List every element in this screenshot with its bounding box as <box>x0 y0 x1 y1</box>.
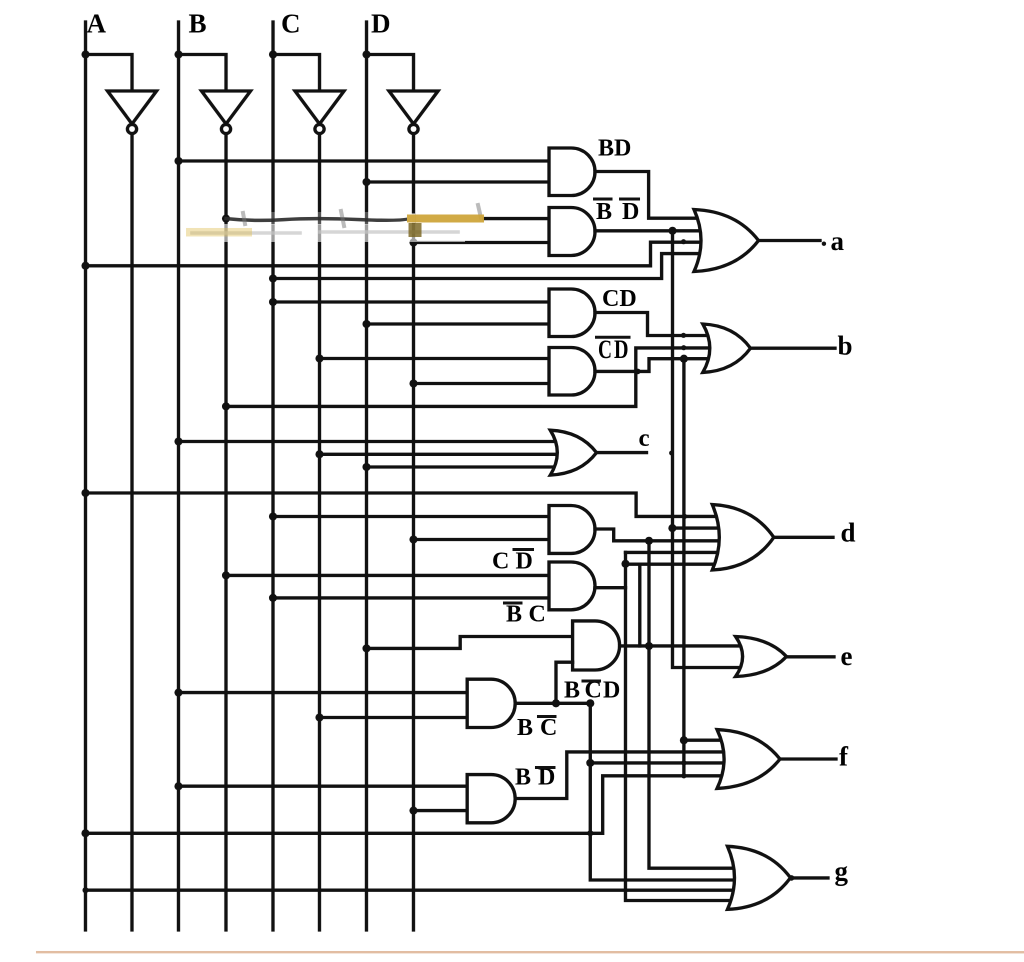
bus BCb vertical <box>590 703 746 880</box>
node CbDb bus tap <box>680 355 688 363</box>
wire B-bar to BbDb gate <box>484 217 549 220</box>
inverter for A <box>108 91 157 124</box>
OR gate d <box>712 505 774 570</box>
node BbDb bus tap <box>668 227 676 235</box>
junction Db-CDb <box>409 535 417 543</box>
wire C to CDb gate <box>273 515 549 518</box>
svg-text:B: B <box>596 199 612 225</box>
svg-text:D: D <box>371 8 391 38</box>
AND gate B-bar D-bar <box>549 208 595 256</box>
bus B-bar-D-bar vertical <box>672 231 752 668</box>
svg-text:A: A <box>87 8 107 38</box>
wire OR f output <box>780 757 836 760</box>
wire BD to OR a <box>595 172 715 219</box>
wire C-bar to OR c <box>320 453 569 456</box>
stray node c1 <box>669 451 674 456</box>
junction B top <box>174 50 182 58</box>
stray node b1 <box>681 333 686 338</box>
svg-text:B: B <box>189 8 207 38</box>
node CDb bus tap <box>645 537 653 545</box>
stray node f3 <box>681 773 686 778</box>
wire BbC to OR d in4 <box>625 551 732 554</box>
wire OR b output <box>751 347 836 350</box>
bus BbC vertical <box>625 552 746 900</box>
junction B-BCb <box>174 689 182 697</box>
junction D-BCbD <box>362 644 370 652</box>
svg-text:C: C <box>540 715 557 741</box>
AND gate BD <box>549 148 595 196</box>
stray node f2 <box>587 830 593 836</box>
wire A to OR a <box>86 242 716 266</box>
wire B to BCb gate <box>178 691 467 694</box>
wire B-bar to BbC gate <box>226 574 549 577</box>
svg-text:D: D <box>614 335 629 364</box>
wire C to OR a <box>273 254 715 279</box>
stray node b3 <box>681 345 686 350</box>
junction Db-BbDb <box>409 238 417 246</box>
wire BCb to OR f <box>590 761 736 764</box>
AND gate C D-bar <box>549 506 595 554</box>
AND gate B D-bar <box>467 775 515 823</box>
inverter for D <box>389 91 438 124</box>
line C-bar <box>318 134 321 930</box>
svg-text:c: c <box>639 425 650 452</box>
svg-text:CD: CD <box>602 286 637 312</box>
node BCb to BCbD riser <box>552 699 560 707</box>
junction C-CD <box>269 298 277 306</box>
wire OR c output <box>597 451 647 454</box>
junction Db-CbDb <box>409 379 417 387</box>
wire B to BDb gate <box>178 785 467 788</box>
junction Cb to c <box>315 450 323 458</box>
svg-text:D: D <box>515 549 532 575</box>
wire BbC output <box>595 586 626 589</box>
junction C-BbC <box>269 594 277 602</box>
wire A to OR d <box>85 493 732 516</box>
wire D to CD gate <box>367 322 550 325</box>
svg-text:d: d <box>840 518 855 548</box>
wire B-bar to OR b <box>226 348 722 407</box>
node a terminal <box>822 242 826 246</box>
wire CDb to OR d <box>595 529 732 541</box>
wire C-bar to CbDb gate <box>320 357 549 360</box>
wire OR d output <box>774 536 833 539</box>
wire BCbD riser <box>638 564 641 646</box>
page divider line <box>36 951 1024 953</box>
wire C to BbC gate <box>273 596 549 599</box>
wire CbDb to OR f <box>684 739 736 742</box>
junction A top <box>81 50 89 58</box>
svg-text:B: B <box>564 678 580 704</box>
svg-text:BD: BD <box>598 136 631 162</box>
wire D-bar to CbDb gate <box>414 382 550 385</box>
svg-text:B: B <box>515 765 531 791</box>
line B-bar <box>224 134 227 930</box>
wire OR e output <box>786 655 834 658</box>
bus CbDb to f vertical <box>682 359 685 776</box>
junction Bb-BbC <box>222 571 230 579</box>
wire BDb to OR f <box>515 752 736 799</box>
svg-text:f: f <box>839 742 849 772</box>
input line C <box>271 22 274 930</box>
input line B <box>177 22 180 930</box>
line D-bar <box>412 134 415 930</box>
node f in1 <box>680 736 688 744</box>
wire D-bar to CDb gate <box>413 538 549 541</box>
AND gate B C-bar <box>467 679 515 727</box>
wire OR d in5 <box>625 563 732 566</box>
svg-text:B: B <box>506 601 522 627</box>
stray node a3 <box>681 239 686 244</box>
wire BbDb to OR d <box>672 526 732 529</box>
junction Cb-BCb <box>315 713 323 721</box>
wire C-bar to BCb gate <box>319 716 467 719</box>
wire D-bar to BbDb gate <box>414 241 550 244</box>
svg-text:C: C <box>281 8 301 38</box>
svg-text:D: D <box>603 678 620 704</box>
wire BCbD nose to OR e <box>620 644 752 647</box>
junction D-BD <box>362 178 370 186</box>
node e in1 <box>645 642 653 650</box>
wire CbDb to OR b <box>595 359 722 372</box>
OR gate e <box>736 637 787 677</box>
svg-text:b: b <box>838 331 853 361</box>
junction B-BD <box>174 157 182 165</box>
wire BbDb to OR a <box>595 229 715 232</box>
line A-bar <box>130 134 133 930</box>
wire D to BCbD gate <box>366 636 572 648</box>
smudge overlay <box>230 212 410 225</box>
junction Db-BDb <box>409 807 417 815</box>
wire A to OR f <box>85 776 736 834</box>
svg-text:D: D <box>622 199 639 225</box>
AND gate CD <box>549 289 595 337</box>
smudge gray remnant <box>192 232 458 233</box>
junction A to a <box>81 262 89 270</box>
wire C to inverter <box>273 54 320 91</box>
input line A <box>84 22 87 930</box>
svg-text:g: g <box>834 856 848 886</box>
svg-text:a: a <box>831 226 845 256</box>
wire B to BD gate <box>179 159 550 162</box>
AND gate C-bar D-bar <box>549 348 595 396</box>
wire B to OR c <box>179 440 569 443</box>
svg-text:e: e <box>840 641 852 671</box>
node BCb bus tap <box>586 699 594 707</box>
wire OR a output <box>759 239 821 242</box>
node d in5 <box>621 560 629 568</box>
junction Bb-BbDb <box>222 215 230 223</box>
svg-text:C: C <box>528 602 545 628</box>
OR gate b <box>703 324 751 372</box>
junction Cb-CbDb <box>315 354 323 362</box>
wire D to BD gate <box>367 180 550 183</box>
stray node b2 <box>635 369 641 375</box>
wire A to OR g <box>85 888 746 891</box>
wire B to inverter <box>179 54 227 91</box>
junction B to c <box>174 437 182 445</box>
svg-text:B: B <box>517 715 533 741</box>
input line D <box>365 22 368 930</box>
AND gate B C-bar D <box>573 621 620 670</box>
OR gate g <box>727 846 790 909</box>
wire A to inverter <box>86 54 133 91</box>
OR gate f <box>717 730 780 789</box>
junction B-BDb <box>174 782 182 790</box>
svg-text:C: C <box>492 548 509 574</box>
wire CD to OR b <box>595 313 722 336</box>
AND gate B-bar C <box>549 562 595 610</box>
wire D to OR c <box>367 465 569 468</box>
junction A to d <box>81 489 89 497</box>
node f in3 <box>586 759 594 767</box>
svg-text:C: C <box>598 335 612 364</box>
inverter for C <box>295 91 344 124</box>
stray node d1 <box>682 514 687 519</box>
yellow marker streak <box>407 213 415 223</box>
junction A to f <box>81 829 89 837</box>
junction Bb to b <box>222 402 230 410</box>
OR gate c <box>550 430 596 475</box>
bus CDb vertical <box>649 541 746 868</box>
OR gate a <box>694 210 759 272</box>
wire OR g output <box>790 876 828 879</box>
junction D to c <box>362 463 370 471</box>
wire BCb output <box>515 702 590 705</box>
junction D top <box>362 50 370 58</box>
wire D to inverter <box>367 54 414 91</box>
wire D-bar to BDb gate <box>413 809 467 812</box>
inverter for B <box>202 91 251 124</box>
stray node f1 <box>681 760 686 765</box>
junction C-CDb <box>269 512 277 520</box>
junction D-CD <box>362 320 370 328</box>
junction A to g <box>82 887 88 893</box>
node g nose <box>789 875 795 881</box>
wire BCb up to BCbD gate <box>556 662 573 703</box>
wire C to CD gate <box>273 300 549 303</box>
junction C to a <box>269 274 277 282</box>
junction C top <box>269 50 277 58</box>
node d in2 <box>668 524 676 532</box>
